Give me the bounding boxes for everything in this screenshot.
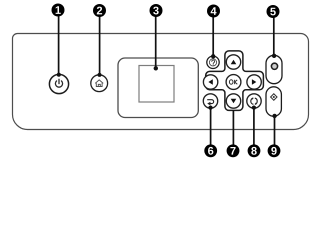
- start button: [266, 87, 281, 117]
- LCD screen: [139, 66, 174, 103]
- callout leader 3: [155, 17, 157, 69]
- callout circle 5: [267, 5, 280, 18]
- stop button: [266, 55, 282, 83]
- callout circle 6: [204, 144, 217, 157]
- callout leader 7: [232, 110, 234, 145]
- help icon: [209, 59, 216, 66]
- OK button: [226, 75, 241, 90]
- rotate icon: [251, 98, 257, 104]
- callout circle 7: [227, 144, 240, 157]
- back button: [203, 94, 217, 108]
- rotate button: [247, 94, 261, 108]
- power button: [49, 74, 68, 93]
- callout circle 9: [268, 144, 281, 157]
- callout circle 4: [207, 5, 220, 18]
- d-pad cross outline: [206, 51, 264, 111]
- callout leader 4: [212, 17, 214, 56]
- callout leader 1: [58, 16, 60, 75]
- callout leader 8: [253, 108, 255, 145]
- callout circle 1: [52, 4, 65, 17]
- back icon: [207, 100, 213, 104]
- left arrow button: [203, 75, 217, 89]
- down arrow button: [226, 94, 240, 108]
- stop icon: [271, 63, 277, 69]
- LCD bezel: [118, 58, 198, 118]
- control panel outline: [13, 34, 309, 130]
- power icon: [55, 79, 62, 87]
- home button: [91, 75, 108, 92]
- start icon diamond: [271, 94, 277, 100]
- callout circle 8: [248, 144, 261, 157]
- OK label: [229, 80, 237, 84]
- help button ?: [207, 56, 219, 68]
- callout leader 6: [210, 108, 212, 145]
- callout circle 2: [93, 4, 106, 17]
- right arrow button: [247, 75, 261, 89]
- callout leader 5: [273, 18, 275, 56]
- up arrow button: [226, 55, 240, 69]
- callout circle 3: [150, 4, 163, 17]
- callout leader 9: [274, 116, 276, 145]
- home icon: [95, 80, 103, 87]
- callout leader 2: [99, 17, 101, 75]
